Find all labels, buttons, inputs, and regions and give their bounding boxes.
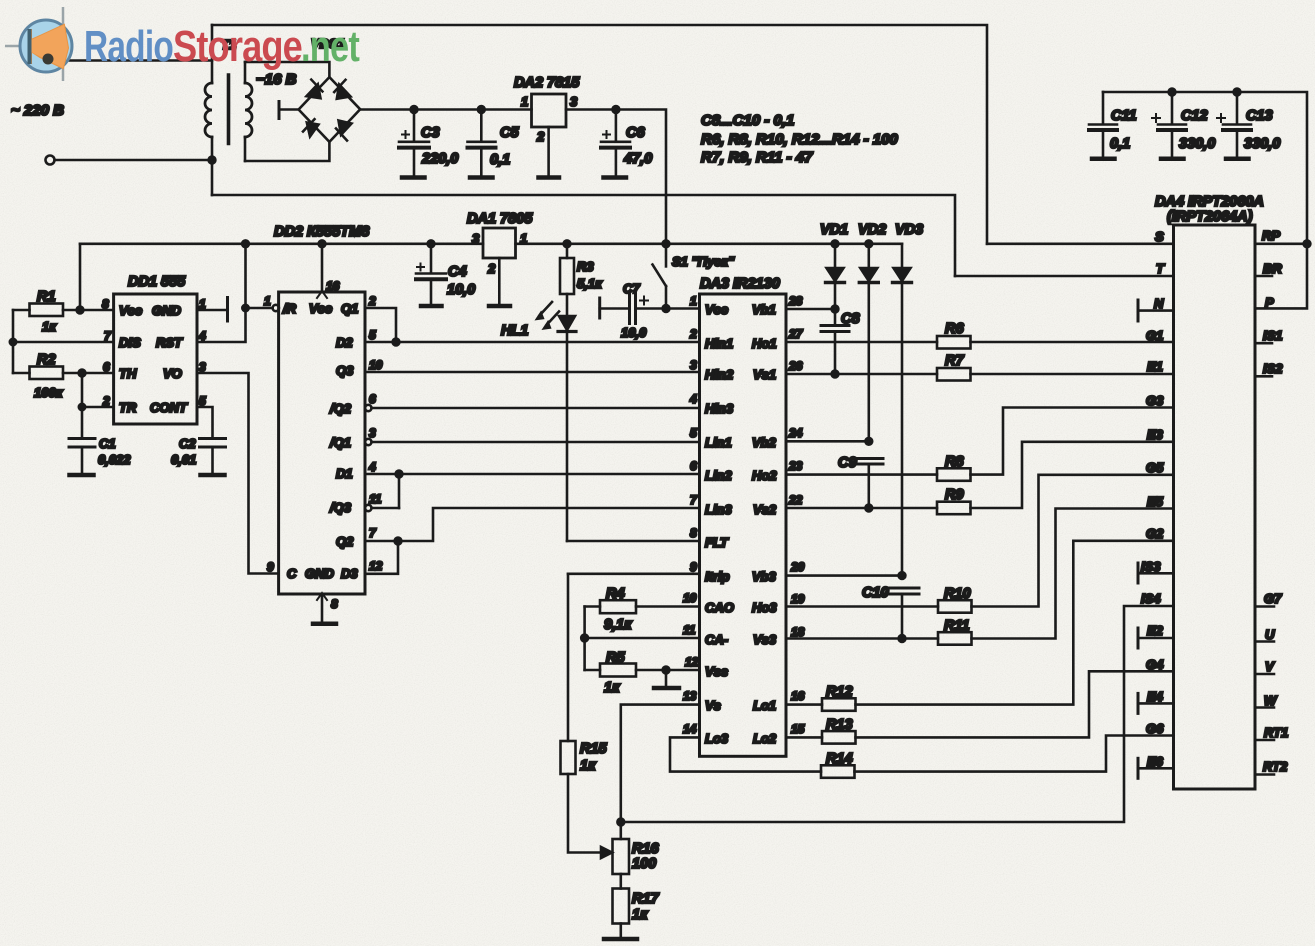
svg-text:Q2: Q2: [336, 534, 354, 549]
capacitor C3: [413, 110, 416, 142]
svg-text:22: 22: [788, 493, 803, 507]
svg-text:Vcc: Vcc: [309, 301, 333, 316]
svg-text:DIS: DIS: [119, 335, 141, 350]
svg-text:1: 1: [264, 294, 271, 308]
svg-text:8: 8: [690, 526, 697, 540]
svg-text:0,01: 0,01: [171, 452, 196, 467]
svg-text:4: 4: [689, 392, 697, 406]
wire Vs3 row to R11: [786, 637, 938, 640]
stub G7: [1255, 605, 1274, 608]
svg-text:S1 "Пуск": S1 "Пуск": [672, 254, 735, 269]
diode VDS1 bottom-right: [339, 121, 352, 135]
svg-text:IS4: IS4: [1141, 591, 1161, 606]
capacitor C1 0,022: [69, 437, 95, 440]
svg-text:6: 6: [369, 392, 376, 406]
svg-text:Vs2: Vs2: [753, 502, 777, 517]
svg-text:N: N: [1154, 296, 1164, 311]
svg-text:E5: E5: [1147, 494, 1164, 509]
svg-text:FLT: FLT: [705, 535, 729, 550]
svg-text:2: 2: [536, 129, 545, 144]
resistor R6: [937, 336, 971, 349]
svg-text:DA1 7805: DA1 7805: [467, 211, 533, 227]
resistor R10: [938, 600, 972, 613]
svg-text:C8: C8: [841, 311, 860, 327]
wire R14 jog up to G6: [855, 736, 1174, 772]
stub RT1: [1255, 739, 1274, 742]
svg-text:Lin3: Lin3: [705, 502, 732, 517]
diode VD3: [901, 244, 904, 267]
svg-text:11: 11: [683, 623, 696, 637]
svg-text:0,022: 0,022: [98, 452, 131, 467]
svg-text:11: 11: [369, 492, 382, 506]
svg-text:R6, R8, R10, R12...R14 - 100: R6, R8, R10, R12...R14 - 100: [701, 131, 898, 148]
terminator E6: [1137, 758, 1140, 778]
wire T feed: [955, 275, 1174, 278]
LED HL1: [559, 316, 575, 330]
terminal 220V line2: [46, 156, 55, 165]
wire Lo3 jog under box: [670, 737, 821, 771]
svg-text:HL1: HL1: [501, 323, 528, 339]
svg-text:DD1 555: DD1 555: [128, 274, 186, 290]
svg-text:Lo3: Lo3: [705, 731, 729, 746]
svg-text:C2: C2: [179, 436, 196, 451]
wire R10 jog up to G5: [972, 475, 1174, 607]
svg-text:Hin3: Hin3: [705, 401, 734, 416]
bridge minus stub terminator: [279, 108, 299, 111]
svg-text:R17: R17: [632, 891, 660, 907]
svg-text:16: 16: [326, 279, 340, 293]
IC DD2 K555TM8: [279, 292, 365, 594]
wire DD2 pin8 ground: [321, 594, 324, 622]
svg-text:Radio: Radio: [84, 22, 173, 71]
regulator DA1 7805: [483, 228, 516, 258]
svg-text:V: V: [1265, 659, 1275, 674]
svg-text:G6: G6: [1146, 721, 1164, 736]
wire R7 to E1: [971, 373, 1174, 376]
wire bottom rail 0V: [212, 195, 955, 276]
regulator DA2 7815: [532, 94, 567, 127]
svg-text:9: 9: [267, 560, 274, 574]
wire common Vs line to IS4: [621, 606, 1174, 822]
wire 5V rail left segment: [80, 243, 483, 246]
svg-text:Vss: Vss: [705, 664, 728, 679]
wire 220V line1 from logo to transformer: [47, 59, 212, 62]
node C9-Vs2: [865, 505, 872, 512]
svg-text:S: S: [1155, 229, 1164, 244]
transformer T1 primary: [211, 25, 214, 83]
wire Q2 jog up to Lin3 row: [365, 508, 700, 541]
svg-text:C13: C13: [1246, 108, 1273, 124]
svg-text:C10: C10: [862, 585, 889, 601]
wire Vb2 row: [786, 440, 869, 443]
svg-text:R3: R3: [577, 259, 594, 274]
wire Q1 pin2 jog to D2 row: [365, 308, 396, 342]
svg-text:E2: E2: [1147, 623, 1164, 638]
svg-text:3: 3: [369, 426, 376, 440]
node D1-/Q3: [396, 471, 403, 478]
node C8-Vs1: [832, 371, 839, 378]
svg-text:10: 10: [369, 358, 383, 372]
svg-text:10,0: 10,0: [447, 282, 475, 298]
node VD1-Vb1: [832, 306, 839, 313]
terminator IS3: [1137, 563, 1140, 583]
wire R6 to G1: [971, 341, 1174, 344]
svg-text:Ho2: Ho2: [752, 468, 777, 483]
svg-text:Hin2: Hin2: [705, 367, 734, 382]
stub W: [1255, 706, 1274, 709]
svg-text:C8...C10 - 0,1: C8...C10 - 0,1: [701, 112, 794, 129]
node Vss ground tap: [663, 667, 670, 674]
node Vs line junction: [617, 819, 624, 826]
svg-text:G4: G4: [1146, 657, 1164, 672]
node junction 220V-2: [209, 157, 216, 164]
svg-text:E3: E3: [1147, 427, 1164, 442]
svg-text:16: 16: [791, 689, 805, 703]
terminator E4: [1137, 693, 1140, 713]
diode VD2: [865, 240, 872, 247]
capacitor C7 10,0: [598, 298, 601, 318]
logo horn: [31, 25, 68, 68]
svg-text:~ 220 В: ~ 220 В: [11, 102, 64, 119]
svg-text:Lin2: Lin2: [705, 468, 732, 483]
switch S1 Pusk: [665, 244, 668, 267]
svg-text:R13: R13: [826, 717, 853, 733]
svg-text:Lo1: Lo1: [753, 698, 776, 713]
transformer T1 secondary: [244, 62, 247, 83]
svg-text:100к: 100к: [34, 385, 64, 400]
svg-text:CA-: CA-: [705, 632, 728, 647]
svg-text:Hin1: Hin1: [705, 336, 733, 351]
wire TR row: [82, 406, 114, 409]
svg-text:19: 19: [791, 592, 805, 606]
svg-text:13: 13: [683, 689, 697, 703]
svg-text:Q1: Q1: [341, 301, 358, 316]
node S1 rail: [663, 240, 670, 247]
wire Itrip row: [568, 572, 700, 575]
svg-text:/Q1: /Q1: [329, 435, 351, 450]
stub BR: [1255, 275, 1272, 278]
transformer T1 core: [227, 75, 231, 144]
stub IS1: [1255, 342, 1272, 345]
svg-text:C9: C9: [838, 455, 857, 471]
svg-text:VD1: VD1: [820, 222, 848, 238]
svg-text:R12: R12: [826, 684, 853, 700]
svg-text:100: 100: [632, 856, 656, 872]
wire RST to rail: [197, 244, 246, 342]
resistor R8: [937, 468, 971, 481]
svg-text:C4: C4: [448, 264, 467, 280]
wire R12 jog up to G2: [856, 541, 1174, 705]
svg-text:4: 4: [368, 460, 376, 474]
svg-text:G7: G7: [1264, 591, 1282, 606]
IC DD1 555: [114, 294, 197, 424]
stub IS2: [1255, 375, 1272, 378]
wire R9 jog up to E3: [971, 442, 1174, 508]
svg-text:T: T: [1156, 261, 1165, 276]
svg-text:1: 1: [690, 294, 697, 308]
svg-text:E4: E4: [1147, 689, 1164, 704]
wire 15V rail from DA2 to corner and down: [566, 110, 666, 244]
wire Itrip down to R15: [567, 574, 570, 741]
svg-text:IS2: IS2: [1263, 361, 1283, 376]
logo circle: [20, 20, 72, 72]
potentiometer R16 100: [613, 839, 630, 874]
resistor R9: [937, 502, 971, 515]
svg-text:R16: R16: [632, 841, 660, 857]
svg-text:6: 6: [103, 360, 110, 374]
capacitor C5: [480, 110, 483, 142]
svg-text:26: 26: [788, 359, 803, 373]
node C6: [613, 106, 620, 113]
IC DA4 IRPT2060A: [1174, 225, 1256, 789]
svg-text:C5: C5: [500, 125, 519, 141]
svg-text:R9: R9: [945, 487, 964, 503]
svg-text:Q3: Q3: [336, 363, 354, 378]
svg-text:R2: R2: [37, 352, 56, 368]
resistor R4 9,1k: [585, 605, 600, 608]
wire HL1 to FLT row: [566, 332, 569, 542]
svg-text:C: C: [287, 566, 297, 581]
svg-text:D2: D2: [336, 335, 353, 350]
wire DD2 Vcc riser pin16: [321, 244, 324, 292]
svg-text:RT1: RT1: [1264, 725, 1288, 740]
wire 16V rail from bridge to DA2: [360, 108, 531, 111]
svg-text:8: 8: [331, 597, 338, 611]
svg-text:Vs: Vs: [705, 698, 721, 713]
svg-text:/R: /R: [282, 301, 297, 316]
svg-text:R11: R11: [944, 618, 970, 634]
svg-text:CAO: CAO: [705, 600, 734, 615]
wire Ho2 row to R8: [786, 473, 937, 476]
svg-text:GND: GND: [152, 303, 182, 318]
svg-text:Lin1: Lin1: [705, 435, 732, 450]
node R1/Vcc: [77, 307, 84, 314]
svg-text:Itrip: Itrip: [705, 569, 730, 584]
node TH junction: [79, 370, 86, 377]
svg-text:2: 2: [102, 394, 110, 408]
wire Vb1 row: [786, 308, 835, 311]
svg-text:8: 8: [102, 297, 109, 311]
svg-text:Vb2: Vb2: [752, 435, 777, 450]
svg-text:R4: R4: [606, 586, 625, 602]
capacitor C13: [1236, 92, 1239, 124]
svg-text:VO: VO: [163, 366, 182, 381]
resistor R17 1k: [613, 889, 630, 924]
svg-text:VD2: VD2: [858, 222, 886, 238]
svg-text:2: 2: [368, 294, 376, 308]
wire CONT to C2: [197, 407, 213, 438]
wire C11-C13 top rail: [1103, 92, 1307, 244]
svg-text:1к: 1к: [42, 319, 57, 334]
svg-text:DA4 IRPT2060A: DA4 IRPT2060A: [1155, 194, 1264, 210]
svg-text:D3: D3: [341, 566, 358, 581]
resistor R13: [822, 731, 856, 744]
node TR tap: [79, 404, 85, 410]
svg-text:DA3 IR2130: DA3 IR2130: [700, 276, 780, 292]
svg-text:R1: R1: [37, 289, 56, 305]
resistor R14: [821, 765, 855, 778]
svg-text:IS3: IS3: [1141, 559, 1161, 574]
IC DA3 IR2130: [700, 294, 787, 756]
node C5: [478, 106, 485, 113]
resistor R3 5,1k: [566, 244, 569, 258]
terminator E2: [1137, 628, 1140, 648]
svg-text:D1: D1: [336, 466, 353, 481]
stub U: [1255, 640, 1274, 643]
wire R15 to wiper arrow: [568, 774, 603, 853]
terminator N: [1137, 300, 1140, 321]
svg-text:Vs3: Vs3: [753, 632, 777, 647]
svg-text:IS1: IS1: [1263, 328, 1283, 343]
wire secondary bottom lead: [245, 142, 329, 161]
svg-text:1к: 1к: [580, 758, 596, 774]
svg-text:330,0: 330,0: [1244, 136, 1280, 152]
node CA- tap: [581, 635, 588, 642]
wire /R pin1: [246, 307, 273, 310]
bridge rectifier VDS1 diamond: [299, 77, 361, 142]
svg-text:24: 24: [788, 426, 803, 440]
svg-text:Vcc: Vcc: [705, 302, 729, 317]
svg-text:R6: R6: [945, 321, 964, 337]
svg-text:12: 12: [685, 655, 699, 669]
capacitor C2 0,01: [200, 437, 226, 440]
svg-text:5: 5: [690, 426, 697, 440]
svg-text:CONT: CONT: [150, 400, 188, 415]
wire Ho1 row to R6: [786, 341, 937, 344]
capacitor C12: [1171, 92, 1174, 124]
wire TH to TR and C1 vertical: [81, 373, 84, 438]
node /R tap: [242, 305, 248, 311]
svg-text:6: 6: [690, 459, 697, 473]
svg-text:.net: .net: [301, 22, 360, 71]
diode VDS1 top-left: [307, 84, 321, 98]
wire Vs2 row to R9: [786, 507, 937, 510]
wire R8 jog up to G3: [971, 408, 1174, 475]
svg-text:E1: E1: [1147, 359, 1163, 374]
node VD2-Vb2: [865, 438, 872, 445]
svg-text:18: 18: [791, 625, 805, 639]
svg-text:10: 10: [683, 591, 697, 605]
capacitor C6: [615, 110, 618, 142]
svg-text:DD2 К555ТМ8: DD2 К555ТМ8: [274, 224, 370, 240]
wire D2 row to DA3 Hin1: [365, 341, 700, 344]
svg-text:Vb3: Vb3: [752, 569, 777, 584]
svg-text:C6: C6: [626, 125, 645, 141]
svg-text:BR: BR: [1263, 261, 1282, 276]
svg-text:E6: E6: [1147, 754, 1164, 769]
resistor R11: [938, 632, 972, 645]
svg-text:1к: 1к: [604, 680, 620, 696]
svg-text:C11: C11: [1111, 108, 1137, 124]
svg-text:27: 27: [788, 327, 804, 341]
svg-text:2: 2: [689, 327, 697, 341]
ground at R17: [619, 924, 622, 938]
svg-text:1: 1: [520, 231, 527, 246]
svg-text:Storage: Storage: [173, 22, 302, 71]
svg-text:C12: C12: [1181, 108, 1208, 124]
logo RadioStorage crosshair: [5, 7, 63, 81]
svg-text:−16 В: −16 В: [256, 71, 297, 88]
wire CA- row: [585, 637, 700, 640]
wire 15V rail right segment: [516, 243, 903, 246]
wire Ho3 row to R10: [786, 605, 938, 608]
wire RP to right vertical: [1255, 243, 1307, 246]
ground at Vss: [665, 670, 668, 686]
svg-text:RST: RST: [156, 335, 183, 350]
svg-text:15: 15: [791, 722, 805, 736]
svg-text:5: 5: [369, 328, 376, 342]
node VD3-Vb3: [899, 572, 906, 579]
wire D1 row to DA3 Lin2: [365, 473, 700, 476]
svg-text:1к: 1к: [632, 907, 648, 923]
svg-text:/Q2: /Q2: [329, 401, 352, 416]
resistor R5 1k: [585, 669, 600, 672]
wire /Q1 row to DA3 Lin1: [365, 439, 371, 445]
svg-text:(IRPT2064A): (IRPT2064A): [1167, 209, 1253, 225]
wire Lo1 row to R12: [786, 703, 822, 706]
svg-text:R15: R15: [580, 741, 608, 757]
svg-text:20: 20: [790, 560, 805, 574]
node S1-Vcc: [663, 305, 670, 312]
node R3 rail: [564, 240, 571, 247]
svg-text:R7, R9, R11 - 47: R7, R9, R11 - 47: [701, 149, 813, 166]
svg-text:Vs1: Vs1: [753, 367, 776, 382]
svg-text:330,0: 330,0: [1179, 136, 1215, 152]
svg-text:/Q3: /Q3: [329, 500, 352, 515]
svg-text:DA2 7815: DA2 7815: [514, 75, 580, 91]
capacitor C11: [1102, 92, 1105, 124]
svg-text:9: 9: [690, 560, 697, 574]
svg-text:14: 14: [683, 722, 697, 736]
wire D1 to /Q3 feedback: [398, 474, 401, 508]
wire Vb3 row: [786, 574, 902, 577]
svg-text:220,0: 220,0: [421, 151, 458, 167]
svg-text:C7: C7: [623, 281, 640, 296]
wire S feed: [987, 243, 1174, 246]
svg-text:R8: R8: [945, 454, 964, 470]
wire R11 jog up to E5: [972, 509, 1174, 639]
capacitor C8: [834, 309, 837, 325]
wire Q3 row to DA3 Hin2: [365, 371, 700, 374]
node C3: [411, 106, 418, 113]
svg-text:Vcc: Vcc: [119, 303, 143, 318]
svg-text:23: 23: [788, 459, 803, 473]
svg-text:W: W: [1264, 693, 1278, 708]
wire top rail 16V box top: [212, 25, 987, 244]
node C12: [1169, 89, 1176, 96]
svg-text:12: 12: [369, 559, 383, 573]
svg-text:G1: G1: [1146, 328, 1163, 343]
diode VDS1 bottom-left: [307, 123, 319, 137]
wire GND pin1 stub terminator: [197, 309, 228, 312]
capacitor C4 10,0: [430, 244, 433, 273]
wire R13 jog up to G4: [856, 671, 1174, 737]
svg-text:Lo2: Lo2: [753, 731, 777, 746]
svg-text:G3: G3: [1146, 393, 1164, 408]
diode VD1: [832, 240, 839, 247]
resistor R7: [937, 368, 971, 381]
node Q1-D2: [393, 339, 400, 346]
stub RT2: [1255, 773, 1274, 776]
svg-text:TR: TR: [119, 400, 137, 415]
wire FLT row: [567, 540, 700, 543]
svg-text:GND: GND: [305, 566, 335, 581]
resistor R15 1k: [561, 741, 576, 774]
capacitor C10: [885, 587, 919, 590]
svg-text:VD3: VD3: [895, 222, 923, 238]
node Q2-D3: [395, 538, 402, 545]
svg-text:3: 3: [690, 358, 697, 372]
